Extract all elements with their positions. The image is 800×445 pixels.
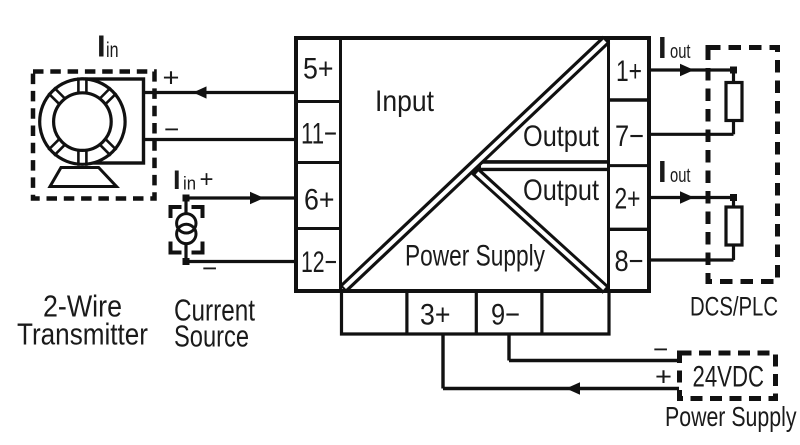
bottom terminal row [342,293,610,335]
separator 2+/8- [609,228,652,231]
junction dot [183,195,190,202]
svg-text:2+: 2+ [615,183,641,216]
bottom row separator right [540,293,543,335]
svg-text:9−: 9− [491,299,520,332]
svg-text:Source: Source [174,319,249,354]
svg-text:out: out [670,41,691,63]
svg-text:+: + [163,63,180,93]
wire to 24VDC plus [443,387,679,390]
wedge diagonal double line [475,171,607,291]
svg-text:1+: 1+ [616,55,642,88]
resistor load R1 [726,83,742,121]
isolator main box [296,38,649,291]
svg-text:Power Supply: Power Supply [405,240,545,273]
svg-text:+: + [655,362,672,392]
svg-text:in: in [183,174,196,194]
separator 11-/6+ [294,161,341,164]
svg-text:8−: 8− [615,245,644,278]
svg-text:I: I [658,30,667,65]
svg-text:6+: 6+ [304,184,335,217]
wire current source to terminal 6+ [186,196,295,199]
ring spokes [48,77,116,165]
junction dot [730,194,737,201]
svg-text:3+: 3+ [420,299,451,332]
wire to 24VDC minus [509,359,679,362]
current source corner brackets [171,207,203,253]
wire down to R1 top [732,70,735,83]
wire 1+ to load R1 [651,68,734,71]
svg-text:I: I [97,29,106,64]
transmitter body square [82,79,144,163]
svg-text:7−: 7− [615,120,644,153]
wire current source top up [184,198,187,215]
junction dot [183,258,190,265]
svg-text:out: out [670,165,691,187]
arrowhead pointing right on 2+ wire [680,191,694,204]
wire 9- down [507,334,510,361]
svg-text:I: I [658,154,667,189]
svg-text:−: − [164,114,179,144]
separator 1+/7- [609,98,652,101]
svg-text:in: in [106,39,119,62]
wire down to R2 top [732,198,735,209]
transmitter ring inner circle [54,93,112,151]
svg-text:Output: Output [523,120,600,153]
bottom row separator left [405,293,408,335]
svg-text:Output: Output [523,174,600,207]
current source circles [177,214,196,233]
arrowhead pointing right on 6+ wire [250,192,264,205]
right terminal column divider [607,38,610,291]
DCS/PLC dashed enclosure [708,48,778,282]
arrowhead pointing right on 1+ wire [680,64,694,77]
svg-text:5+: 5+ [303,53,334,86]
transmitter ring outer circle [40,79,125,164]
wire current source bottom down [184,243,187,262]
separator 6+/12- [294,227,341,230]
wire transmitter minus to terminal 11- [144,138,296,141]
main diagonal double line [343,40,607,290]
wire R1 to terminal 7- [651,133,734,136]
transmitter stand [50,168,117,187]
24VDC dashed box [680,353,776,399]
2-wire transmitter dashed enclosure [33,72,155,199]
svg-text:DCS/PLC: DCS/PLC [690,292,778,322]
svg-text:Power Supply: Power Supply [665,401,797,432]
arrowhead pointing left on plus wire [193,86,207,98]
svg-text:+: + [200,166,214,193]
svg-text:Transmitter: Transmitter [17,317,148,352]
wire transmitter plus to terminal 5+ [144,91,296,94]
separator 7-/2+ [609,164,652,167]
svg-text:24VDC: 24VDC [693,361,765,394]
wire R1 bottom down [732,121,735,135]
svg-text:Input: Input [375,85,435,118]
svg-text:−: − [202,253,217,283]
resistor load R2 [726,207,742,245]
left terminal column divider [339,38,342,291]
arrowhead pointing left on plus supply wire [566,382,580,395]
wire current source to terminal 12- [186,260,295,263]
junction dot [730,67,737,74]
wire 3+ down [441,334,444,389]
svg-text:12−: 12− [301,246,337,279]
wedge horizontal double line (output separator) [479,160,609,171]
wire R2 bottom down [732,245,735,260]
svg-text:11−: 11− [301,118,337,151]
wire R2 to terminal 8- [651,258,734,261]
wire 2+ to load R2 [651,196,734,199]
separator 3+/9- [475,293,478,335]
svg-text:−: − [653,334,668,364]
svg-text:I: I [173,165,181,195]
separator 5+/11- [294,100,341,103]
